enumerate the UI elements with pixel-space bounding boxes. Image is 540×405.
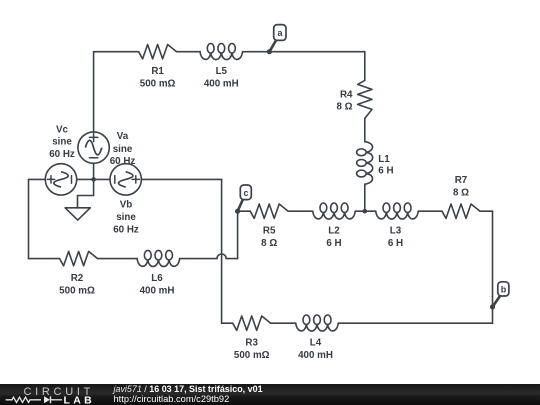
svg-text:sine: sine <box>113 144 133 155</box>
svg-text:Vb: Vb <box>120 200 133 211</box>
svg-text:sine: sine <box>52 137 72 148</box>
svg-text:R5: R5 <box>263 226 276 237</box>
svg-text:Va: Va <box>117 131 129 142</box>
svg-text:8 Ω: 8 Ω <box>261 238 277 249</box>
svg-text:L5: L5 <box>216 66 228 77</box>
svg-text:sine: sine <box>116 212 136 223</box>
svg-text:LAB: LAB <box>64 394 95 405</box>
svg-text:L6: L6 <box>151 273 163 284</box>
svg-text:L4: L4 <box>310 338 322 349</box>
svg-text:400 mH: 400 mH <box>298 350 333 361</box>
svg-text:L1: L1 <box>378 154 390 165</box>
svg-text:60 Hz: 60 Hz <box>110 156 136 167</box>
svg-text:L2: L2 <box>328 226 340 237</box>
svg-text:6 H: 6 H <box>326 238 341 249</box>
svg-text:500 mΩ: 500 mΩ <box>234 350 270 361</box>
svg-text:L3: L3 <box>390 226 402 237</box>
svg-text:Vc: Vc <box>56 125 69 136</box>
svg-text:400 mH: 400 mH <box>140 286 175 297</box>
svg-text:c: c <box>243 188 248 198</box>
svg-text:400 mH: 400 mH <box>204 79 239 90</box>
svg-text:60 Hz: 60 Hz <box>113 225 139 236</box>
svg-text:R7: R7 <box>455 175 468 186</box>
svg-text:R4: R4 <box>340 90 353 101</box>
svg-text:500 mΩ: 500 mΩ <box>59 286 95 297</box>
svg-text:R2: R2 <box>71 273 84 284</box>
svg-text:500 mΩ: 500 mΩ <box>140 79 176 90</box>
svg-text:R1: R1 <box>151 66 164 77</box>
svg-text:60 Hz: 60 Hz <box>49 149 75 160</box>
svg-text:6 H: 6 H <box>378 166 393 177</box>
svg-text:8 Ω: 8 Ω <box>453 188 469 199</box>
svg-text:b: b <box>501 284 507 294</box>
svg-text:8 Ω: 8 Ω <box>336 101 352 112</box>
svg-text:R3: R3 <box>245 338 258 349</box>
svg-text:6 H: 6 H <box>388 238 403 249</box>
